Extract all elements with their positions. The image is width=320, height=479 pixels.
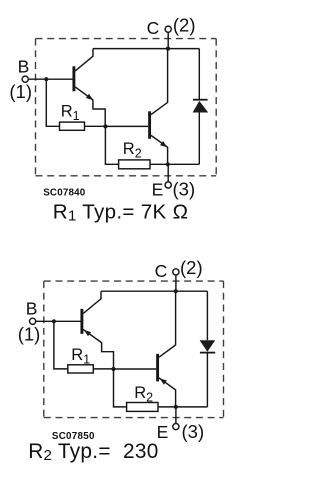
transistor Q4 emitter wire [159, 378, 176, 407]
svg-text:C: C [155, 261, 168, 281]
svg-text:R2 Typ.= 230: R2 Typ.= 230 [28, 440, 158, 464]
package outline (dashed box) circuit 1 [36, 39, 217, 176]
wire R2 left (from base node) [105, 126, 118, 164]
svg-text:(3): (3) [173, 178, 196, 199]
svg-text:R2: R2 [123, 140, 142, 161]
transistor Q3 emitter arrow (PNP, into base) [84, 330, 91, 336]
svg-text:R1: R1 [71, 346, 90, 367]
transistor Q1 emitter wire (to Q2 base node) [75, 87, 105, 127]
svg-text:(1): (1) [9, 81, 32, 102]
transistor Q2 emitter arrow [160, 141, 167, 147]
wire R2 left circuit 2 [114, 369, 127, 407]
node: E junction circuit 2 [174, 405, 178, 409]
wire C terminal drop circuit 2 [175, 275, 177, 291]
diode D2 cathode bar [200, 352, 215, 354]
transistor Q3 base bar [80, 309, 83, 334]
wire Q2 base [105, 125, 148, 127]
diode D1 triangle (pointing up) [193, 101, 209, 113]
svg-text:(2): (2) [173, 14, 196, 35]
wire B to Q3 base [36, 320, 81, 322]
wire E terminal drop [167, 164, 169, 182]
transistor Q4 base bar [156, 354, 159, 382]
resistor R1 circuit 2 [68, 365, 94, 373]
transistor Q1 emitter arrow [86, 94, 93, 100]
wire R1 left circuit 2 [54, 321, 68, 369]
wire: bottom rail E [150, 163, 199, 165]
transistor Q1 base bar [72, 66, 75, 91]
node: C junction [166, 47, 170, 51]
svg-text:(3): (3) [182, 421, 205, 442]
transistor Q4 collector wire [159, 291, 176, 357]
terminal E (pin 3) circuit 1 [165, 182, 171, 188]
wire R1 left (from B node) [46, 79, 59, 126]
transistor Q3 emitter wire [83, 330, 113, 370]
transistor Q2 base bar [148, 111, 151, 139]
node: Q3 emitter / Q4 base junction [111, 367, 115, 371]
terminal E (pin 3) circuit 2 [173, 424, 179, 430]
svg-text:B: B [26, 299, 38, 319]
svg-text:(2): (2) [180, 257, 203, 278]
node: Q1 emitter / Q2 base junction [103, 124, 107, 128]
wire: bottom rail E circuit 2 [158, 406, 207, 408]
svg-text:R1: R1 [61, 102, 80, 123]
node: B/R1 junction circuit 2 [52, 319, 56, 323]
transistor Q4 emitter arrow (PNP, into base) [160, 378, 167, 384]
svg-text:SC07840: SC07840 [43, 187, 86, 198]
transistor Q2 emitter wire [151, 135, 168, 164]
resistor R2 circuit 1 [119, 160, 150, 169]
svg-text:B: B [18, 57, 30, 77]
svg-text:R2: R2 [134, 384, 153, 405]
package outline (dashed box) circuit 2 [44, 281, 224, 418]
svg-text:(1): (1) [18, 324, 41, 345]
transistor Q3 collector wire [83, 291, 101, 313]
resistor R2 circuit 2 [127, 403, 158, 412]
wire B to Q1 base [28, 78, 72, 80]
terminal C (pin 2) circuit 1 [165, 26, 171, 32]
diode D2 bottom wire [206, 353, 208, 407]
svg-text:C: C [147, 18, 160, 38]
wire Q4 base [114, 368, 157, 370]
terminal C (pin 2) circuit 2 [173, 269, 179, 275]
diode D1 cathode bar [193, 99, 208, 101]
transistor Q1 collector wire [75, 49, 93, 71]
terminal B (pin 1) circuit 2 [29, 318, 35, 324]
diode D2 triangle (pointing down) [200, 340, 216, 352]
wire R1 right circuit 2 [93, 368, 113, 370]
wire R1 right [85, 125, 106, 127]
node: C junction circuit 2 [174, 289, 178, 293]
svg-text:R1 Typ.= 7K Ω: R1 Typ.= 7K Ω [53, 201, 188, 225]
wire C terminal drop [167, 32, 169, 48]
resistor R1 circuit 1 [60, 122, 85, 130]
node: E junction [166, 162, 170, 166]
svg-text:E: E [152, 179, 164, 199]
transistor Q2 collector wire [151, 49, 168, 115]
diode D2 top wire [206, 291, 208, 340]
diode D1 bottom wire [198, 113, 200, 165]
terminal B (pin 1) circuit 1 [22, 76, 28, 82]
wire: top rail C circuit 2 [101, 290, 207, 292]
wire: top rail C [93, 48, 199, 50]
wire E terminal drop circuit 2 [175, 407, 177, 424]
node: B/R1 junction [44, 77, 48, 81]
diode D1 top wire [198, 49, 200, 100]
